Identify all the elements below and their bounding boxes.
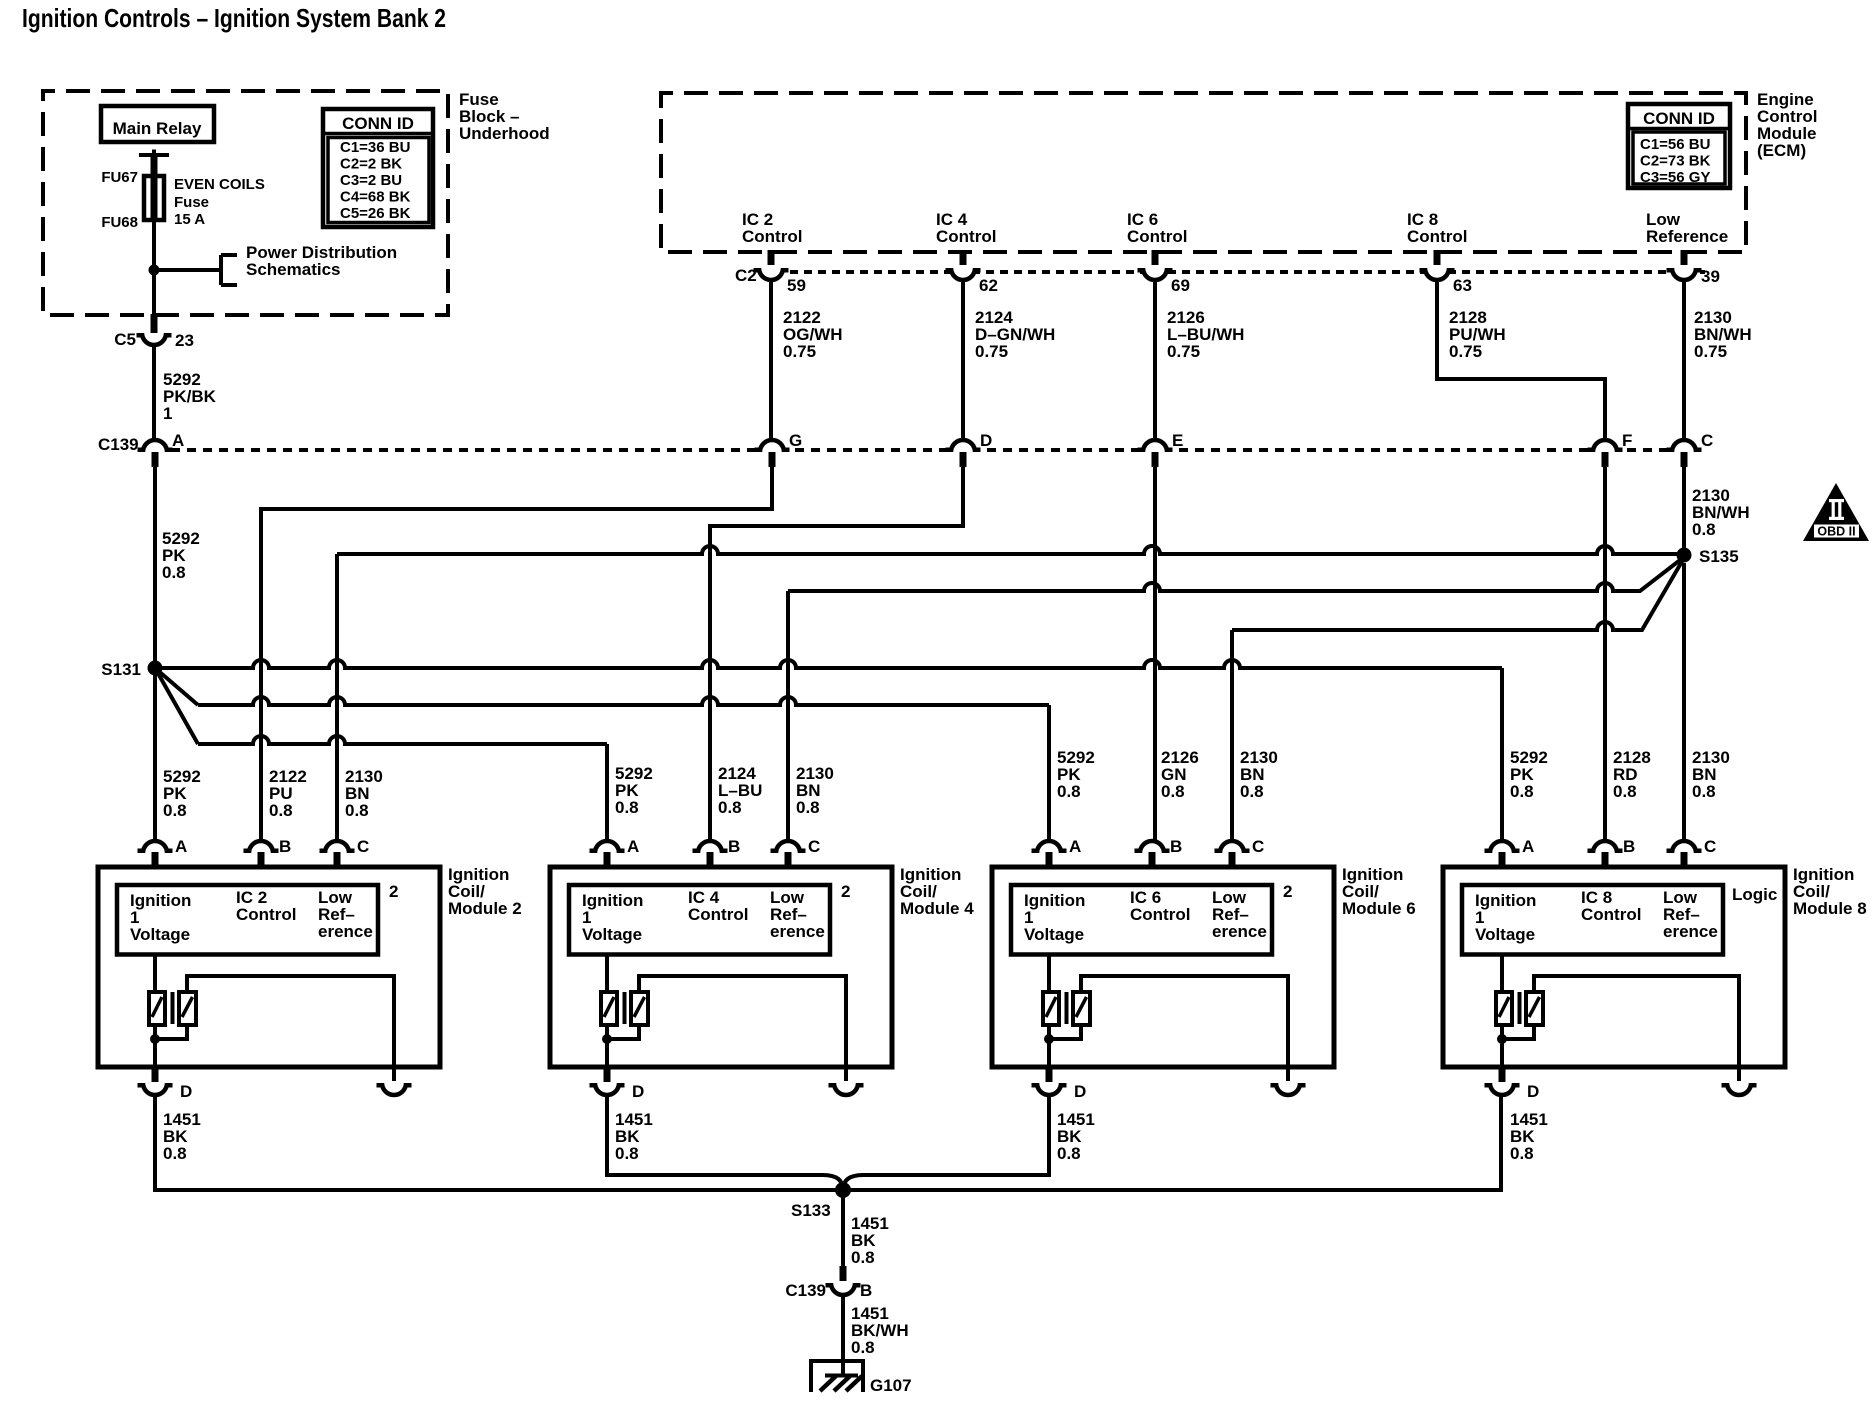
svg-text:D: D xyxy=(180,1082,192,1101)
internal wiring of module 4 xyxy=(607,976,846,1067)
svg-text:0.8: 0.8 xyxy=(1161,782,1185,801)
label: Ignition Coil/ Module 8 xyxy=(1793,865,1867,918)
svg-text:0.8: 0.8 xyxy=(269,801,293,820)
pin E xyxy=(1172,431,1183,450)
label: Engine Control Module (ECM) xyxy=(1757,90,1817,160)
pin C (Low Reference) of module 8 xyxy=(1667,841,1702,867)
svg-text:B: B xyxy=(728,837,740,856)
label: Low Ref-erence xyxy=(318,888,373,941)
wire: low reference bus S135 to module 2 pin C (2130 BN) xyxy=(337,546,1684,841)
pin letter C xyxy=(808,837,820,856)
svg-text:0.8: 0.8 xyxy=(615,798,639,817)
junction dot inside module 2 xyxy=(150,1034,160,1044)
svg-text:C139: C139 xyxy=(785,1281,826,1300)
pin 69 xyxy=(1171,276,1190,295)
wire: S135 to module 8 pin C (2130 BN) xyxy=(1682,563,1686,841)
pin letter A xyxy=(627,837,639,856)
label: Ignition 1 Voltage xyxy=(1024,891,1085,944)
connector C2 dotted harness line xyxy=(762,270,1705,274)
svg-text:Voltage: Voltage xyxy=(130,925,190,944)
ignition coil/module 8 : outer box xyxy=(1443,867,1785,1067)
label: IC 4 Control xyxy=(688,888,748,924)
svg-text:Main Relay: Main Relay xyxy=(113,119,202,138)
svg-text:C3=56 GY: C3=56 GY xyxy=(1640,169,1710,186)
label: Fuse Block - Underhood xyxy=(459,90,550,143)
pin letter C xyxy=(357,837,369,856)
internal wiring of module 6 xyxy=(1049,976,1288,1067)
unused bottom pin of module 8 xyxy=(1722,1067,1757,1095)
svg-text:Control: Control xyxy=(742,227,802,246)
wire: low reference bus S135 to module 4 pin C (2130 BN) xyxy=(788,557,1684,841)
splice S133 xyxy=(835,1182,851,1198)
svg-text:B: B xyxy=(279,837,291,856)
label: Low Ref-erence xyxy=(770,888,825,941)
pin letter A xyxy=(1069,837,1081,856)
svg-text:0.8: 0.8 xyxy=(162,563,186,582)
svg-text:B: B xyxy=(1170,837,1182,856)
svg-text:A: A xyxy=(172,431,184,450)
junction dot inside module 8 xyxy=(1497,1034,1507,1044)
svg-text:C: C xyxy=(357,837,369,856)
value label 2130 BN 0.8 (module 4 C) xyxy=(796,764,834,817)
ignition coil/module 2 : connector block inner box xyxy=(117,885,378,955)
svg-text:0.8: 0.8 xyxy=(1240,782,1264,801)
value label 2130 BN 0.8 (module 6 C) xyxy=(1240,748,1278,801)
ignition coil/module 2 : outer box xyxy=(98,867,440,1067)
junction dot inside module 6 xyxy=(1044,1034,1054,1044)
label G107 xyxy=(870,1376,912,1395)
value label 2130 BN 0.8 (module 8 C) xyxy=(1692,748,1730,801)
connector C2 pin 59 xyxy=(754,250,789,280)
wire 1451 BK 0.8 : S133 to C139-B xyxy=(841,1190,845,1267)
value label 5292 PK 0.8 (module 6 A) xyxy=(1057,748,1095,801)
label C2 xyxy=(735,266,757,285)
label: Ignition 1 Voltage xyxy=(130,891,191,944)
ECM pin label: Low Reference xyxy=(1646,210,1728,246)
pin C (Low Reference) of module 2 xyxy=(320,841,355,867)
value label 2128 PU/WH 0.75 xyxy=(1449,308,1506,361)
svg-text:Control: Control xyxy=(1581,905,1641,924)
wire 2130 BN/WH 0.75 : pin 39 to C139-C xyxy=(1682,280,1686,440)
pin F xyxy=(1622,431,1632,450)
pin A (Ignition 1 Voltage) of module 8 xyxy=(1485,841,1520,867)
pin A (Ignition 1 Voltage) of module 6 xyxy=(1032,841,1067,867)
ECM pin label: IC 2 Control xyxy=(742,210,802,246)
svg-text:0.8: 0.8 xyxy=(1057,782,1081,801)
wire 1451 BK 0.8 : module 2 D and module 8 D to S133 xyxy=(155,1095,1501,1190)
value label 5292 PK 0.8 xyxy=(162,529,200,582)
coil secondary winding (module 8) xyxy=(1526,992,1543,1025)
svg-text:Control: Control xyxy=(1130,905,1190,924)
label: 2 xyxy=(389,882,398,901)
value label 1451 BK 0.8 (module 6 D) xyxy=(1057,1110,1095,1163)
label: Ignition Coil/ Module 2 xyxy=(448,865,522,918)
label: Ignition 1 Voltage xyxy=(1475,891,1536,944)
svg-text:D: D xyxy=(1074,1082,1086,1101)
svg-text:1: 1 xyxy=(163,404,172,423)
value label 2126 L-BU/WH 0.75 xyxy=(1167,308,1244,361)
svg-text:A: A xyxy=(175,837,187,856)
label: IC 8 Control xyxy=(1581,888,1641,924)
label: Low Ref-erence xyxy=(1663,888,1718,941)
svg-text:0.8: 0.8 xyxy=(718,798,742,817)
value label 2130 BN 0.8 (module 2 C) xyxy=(345,767,383,820)
wire 2128 RD 0.8 : C139-F to module 8 pin B xyxy=(1603,467,1607,841)
svg-text:CONN ID: CONN ID xyxy=(1643,109,1715,128)
svg-text:Ignition Controls – Ignition S: Ignition Controls – Ignition System Bank… xyxy=(22,3,446,33)
svg-text:39: 39 xyxy=(1701,267,1720,286)
CONN ID table (fuse block) xyxy=(323,109,433,227)
svg-text:59: 59 xyxy=(787,276,806,295)
svg-text:D: D xyxy=(980,431,992,450)
pin letter D xyxy=(632,1082,644,1101)
label: Ignition Coil/ Module 4 xyxy=(900,865,974,918)
wire 2130 BN/WH 0.8 : C139-C to S135 xyxy=(1682,467,1686,555)
value label 5292 PK 0.8 (module 4 A) xyxy=(615,764,653,817)
label C139 xyxy=(785,1281,826,1300)
label: Power Distribution Schematics xyxy=(246,243,397,279)
ignition coil/module 4 : outer box xyxy=(550,867,892,1067)
svg-text:0.8: 0.8 xyxy=(1613,782,1637,801)
label: IC 6 Control xyxy=(1130,888,1190,924)
value label 2124 L-BU 0.8 (module 4 B) xyxy=(718,764,762,817)
label S133 xyxy=(791,1201,831,1220)
pin letter D xyxy=(1074,1082,1086,1101)
svg-text:0.8: 0.8 xyxy=(163,801,187,820)
connector C139 pin A xyxy=(138,440,173,467)
pin letter D xyxy=(1527,1082,1539,1101)
title: Ignition Controls - Ignition System Bank 2 xyxy=(22,3,446,33)
ignition coil/module 6 : outer box xyxy=(992,867,1334,1067)
value label 5292 PK 0.8 (module 8 A) xyxy=(1510,748,1548,801)
svg-text:69: 69 xyxy=(1171,276,1190,295)
svg-text:D: D xyxy=(1527,1082,1539,1101)
svg-text:Control: Control xyxy=(936,227,996,246)
svg-text:2: 2 xyxy=(1283,882,1292,901)
label: Ignition 1 Voltage xyxy=(582,891,643,944)
pin letter C xyxy=(1704,837,1716,856)
pin D of module 4 xyxy=(590,1068,625,1095)
svg-text:Voltage: Voltage xyxy=(1024,925,1084,944)
wire: S131 to module 2 pin A xyxy=(153,675,157,841)
svg-text:Module 4: Module 4 xyxy=(900,899,974,918)
pin 39 xyxy=(1701,267,1720,286)
OBD II triangle symbol xyxy=(1803,483,1869,541)
junction dot inside module 4 xyxy=(602,1034,612,1044)
value label 1451 BK 0.8 (module 2 D) xyxy=(163,1110,201,1163)
label C5 xyxy=(114,330,136,349)
pin C xyxy=(1701,431,1713,450)
svg-text:Module 6: Module 6 xyxy=(1342,899,1416,918)
ignition coil/module 8 : connector block inner box xyxy=(1462,885,1723,955)
wire 2124 D-GN/WH 0.75 : pin 62 to C139-D xyxy=(961,280,965,440)
internal wiring of module 2 xyxy=(155,976,394,1067)
svg-text:63: 63 xyxy=(1453,276,1472,295)
wire 1451 BK 0.8 : module 4 D to S133 xyxy=(607,1095,843,1190)
svg-text:C2=2 BK: C2=2 BK xyxy=(340,156,402,173)
pin G xyxy=(789,431,802,450)
svg-text:2: 2 xyxy=(389,882,398,901)
connector C2 pin 69 xyxy=(1138,250,1173,280)
value label 2122 OG/WH 0.75 xyxy=(783,308,843,361)
pin 59 xyxy=(787,276,806,295)
ignition coil/module 4 : connector block inner box xyxy=(569,885,830,955)
wire: 5292 PK bus S131 to module 8 pin A xyxy=(155,660,1502,841)
svg-text:Module 2: Module 2 xyxy=(448,899,522,918)
svg-text:erence: erence xyxy=(1212,922,1267,941)
branch wire to Power Distribution Schematics xyxy=(154,255,237,285)
svg-text:FU68: FU68 xyxy=(101,214,138,231)
label S135 xyxy=(1699,547,1739,566)
pin letter B xyxy=(1170,837,1182,856)
svg-text:0.8: 0.8 xyxy=(615,1144,639,1163)
ground G107 xyxy=(809,1359,865,1392)
value label 1451 BK 0.8 xyxy=(851,1214,889,1267)
connector C139 pin B xyxy=(826,1266,861,1295)
svg-text:S133: S133 xyxy=(791,1201,831,1220)
pin B (IC 4 Control) of module 4 xyxy=(693,841,728,867)
connector C139 pin E xyxy=(1138,440,1173,467)
wire 2122 PU 0.8 : C139-G to module 2 pin B xyxy=(261,467,772,841)
svg-text:Voltage: Voltage xyxy=(582,925,642,944)
svg-text:Underhood: Underhood xyxy=(459,124,550,143)
svg-text:erence: erence xyxy=(770,922,825,941)
pin D of module 8 xyxy=(1485,1068,1520,1095)
coil core (module 8) xyxy=(1518,992,1522,1024)
wire 5292 PK/BK 1 : C5 to C139-A xyxy=(152,345,156,440)
fuse FU67/FU68 EVEN COILS 15A xyxy=(144,176,164,220)
label: 2 xyxy=(841,882,850,901)
fuse block - underhood dashed enclosure xyxy=(43,91,448,315)
value label 2124 D-GN/WH 0.75 xyxy=(975,308,1055,361)
pin A (Ignition 1 Voltage) of module 2 xyxy=(138,841,173,867)
unused bottom pin of module 4 xyxy=(829,1067,864,1095)
svg-text:C1=56 BU: C1=56 BU xyxy=(1640,136,1710,153)
pin B (IC 8 Control) of module 8 xyxy=(1588,841,1623,867)
pin letter B xyxy=(1623,837,1635,856)
value label 1451 BK 0.8 (module 8 D) xyxy=(1510,1110,1548,1163)
connector C5 pin 23 xyxy=(137,314,172,345)
svg-text:0.8: 0.8 xyxy=(163,1144,187,1163)
svg-text:Logic: Logic xyxy=(1732,885,1777,904)
svg-text:A: A xyxy=(1069,837,1081,856)
svg-text:S131: S131 xyxy=(101,660,141,679)
wire: low reference bus S135 to module 6 pin C (2130 BN) xyxy=(1232,558,1684,841)
svg-text:erence: erence xyxy=(318,922,373,941)
pin 62 xyxy=(979,276,998,295)
wire 2126 GN 0.8 : C139-E to module 6 pin B xyxy=(1153,467,1157,841)
pin B (IC 6 Control) of module 6 xyxy=(1135,841,1170,867)
svg-text:C: C xyxy=(1704,837,1716,856)
connector C2 pin 62 xyxy=(946,250,981,280)
svg-text:0.75: 0.75 xyxy=(1694,342,1727,361)
svg-text:Fuse: Fuse xyxy=(174,194,209,211)
label FU68 xyxy=(101,214,138,231)
svg-text:A: A xyxy=(1522,837,1534,856)
value label 5292 PK/BK 1 xyxy=(163,370,217,423)
svg-text:B: B xyxy=(1623,837,1635,856)
svg-text:Control: Control xyxy=(236,905,296,924)
wire: fuse to C5 xyxy=(152,220,156,322)
svg-text:S135: S135 xyxy=(1699,547,1739,566)
value label 1451 BK 0.8 (module 4 D) xyxy=(615,1110,653,1163)
svg-text:D: D xyxy=(632,1082,644,1101)
wire 1451 BK 0.8 : module 6 D to S133 xyxy=(843,1095,1049,1190)
svg-text:FU67: FU67 xyxy=(101,169,138,186)
splice S131 xyxy=(148,661,163,676)
svg-text:C1=36 BU: C1=36 BU xyxy=(340,139,410,156)
engine control module (ECM) dashed enclosure xyxy=(661,93,1746,252)
value label 2126 GN 0.8 (module 6 B) xyxy=(1161,748,1199,801)
coil core (module 6) xyxy=(1065,992,1069,1024)
svg-text:G107: G107 xyxy=(870,1376,912,1395)
coil primary winding (module 8) xyxy=(1496,955,1512,1026)
svg-text:F: F xyxy=(1622,431,1632,450)
label: Ignition Coil/ Module 6 xyxy=(1342,865,1416,918)
label: EVEN COILS Fuse 15 A xyxy=(174,176,265,228)
svg-text:C5: C5 xyxy=(114,330,136,349)
svg-text:0.8: 0.8 xyxy=(1510,782,1534,801)
svg-text:CONN ID: CONN ID xyxy=(342,114,414,133)
ECM pin label: IC 4 Control xyxy=(936,210,996,246)
svg-text:C139: C139 xyxy=(98,435,139,454)
connector C139 pin C xyxy=(1667,440,1702,467)
pin C (Low Reference) of module 4 xyxy=(771,841,806,867)
svg-text:Reference: Reference xyxy=(1646,227,1728,246)
wire 1451 BK/WH 0.8 : C139-B to G107 xyxy=(841,1295,845,1374)
relay contact bar xyxy=(139,150,169,156)
svg-text:0.8: 0.8 xyxy=(851,1248,875,1267)
svg-text:EVEN COILS: EVEN COILS xyxy=(174,176,265,193)
ECM pin label: IC 6 Control xyxy=(1127,210,1187,246)
svg-text:0.8: 0.8 xyxy=(796,798,820,817)
value label 2128 RD 0.8 (module 8 B) xyxy=(1613,748,1651,801)
svg-text:C2=73 BK: C2=73 BK xyxy=(1640,153,1711,170)
splice S135 xyxy=(1677,548,1692,563)
pin letter A xyxy=(1522,837,1534,856)
coil core (module 2) xyxy=(171,992,175,1024)
coil secondary winding (module 6) xyxy=(1073,992,1090,1025)
svg-text:0.75: 0.75 xyxy=(783,342,816,361)
svg-text:Control: Control xyxy=(1407,227,1467,246)
internal wiring of module 8 xyxy=(1502,976,1739,1067)
pin B xyxy=(860,1281,872,1300)
wire 2122 OG/WH 0.75 : pin 59 to C139-G xyxy=(769,280,773,440)
svg-text:62: 62 xyxy=(979,276,998,295)
wire: 5292 PK bus S131 to module 6 pin A xyxy=(155,668,1049,841)
svg-text:Control: Control xyxy=(688,905,748,924)
label C139 xyxy=(98,435,139,454)
unused bottom pin of module 2 xyxy=(377,1067,412,1095)
value label 2122 PU 0.8 (module 2 B) xyxy=(269,767,307,820)
value label 2130 BN/WH 0.75 xyxy=(1694,308,1752,361)
coil secondary winding (module 2) xyxy=(179,992,196,1025)
svg-text:0.8: 0.8 xyxy=(1510,1144,1534,1163)
svg-text:C4=68 BK: C4=68 BK xyxy=(340,189,411,206)
coil secondary winding (module 4) xyxy=(631,992,648,1025)
svg-text:C: C xyxy=(1252,837,1264,856)
svg-text:0.8: 0.8 xyxy=(345,801,369,820)
svg-text:2: 2 xyxy=(841,882,850,901)
wire: 5292 PK bus S131 to module 4 pin A xyxy=(155,668,607,841)
svg-text:C: C xyxy=(1701,431,1713,450)
label: Low Ref-erence xyxy=(1212,888,1267,941)
CONN ID table (ECM) xyxy=(1628,104,1730,188)
label: IC 2 Control xyxy=(236,888,296,924)
svg-text:G: G xyxy=(789,431,802,450)
pin A xyxy=(172,431,184,450)
junction dot on feed wire xyxy=(149,265,160,276)
svg-text:C: C xyxy=(808,837,820,856)
pin 23 xyxy=(175,331,194,350)
coil primary winding (module 2) xyxy=(149,955,165,1026)
pin B (IC 2 Control) of module 2 xyxy=(244,841,279,867)
connector C139 dashed harness line xyxy=(155,448,1684,452)
label FU67 xyxy=(101,169,138,186)
pin D xyxy=(980,431,992,450)
wire 2128 PU/WH 0.75 : pin 63 to C139-F xyxy=(1437,280,1605,440)
svg-text:23: 23 xyxy=(175,331,194,350)
coil primary winding (module 4) xyxy=(601,955,617,1026)
pin C (Low Reference) of module 6 xyxy=(1215,841,1250,867)
unused bottom pin of module 6 xyxy=(1271,1067,1306,1095)
svg-text:(ECM): (ECM) xyxy=(1757,141,1806,160)
svg-text:Voltage: Voltage xyxy=(1475,925,1535,944)
coil primary winding (module 6) xyxy=(1043,955,1059,1026)
connector C139 pin G xyxy=(755,440,790,467)
svg-text:C5=26 BK: C5=26 BK xyxy=(340,205,411,222)
relay K: Main Relay box xyxy=(101,106,214,142)
pin letter B xyxy=(728,837,740,856)
svg-text:15 A: 15 A xyxy=(174,211,205,228)
label: 2 xyxy=(1283,882,1292,901)
pin D of module 6 xyxy=(1032,1068,1067,1095)
pin D of module 2 xyxy=(138,1068,173,1095)
connector C139 pin D xyxy=(946,440,981,467)
connector C2 pin 39 xyxy=(1667,250,1702,280)
svg-text:B: B xyxy=(860,1281,872,1300)
svg-text:0.75: 0.75 xyxy=(1167,342,1200,361)
svg-text:OBD II: OBD II xyxy=(1817,525,1855,539)
connector C2 pin 63 xyxy=(1420,250,1455,280)
svg-text:0.8: 0.8 xyxy=(1057,1144,1081,1163)
label S131 xyxy=(101,660,141,679)
wire 2126 L-BU/WH 0.75 : pin 69 to C139-E xyxy=(1153,280,1157,440)
pin A (Ignition 1 Voltage) of module 4 xyxy=(590,841,625,867)
value label 2130 BN/WH 0.8 xyxy=(1692,486,1750,539)
pin letter D xyxy=(180,1082,192,1101)
svg-text:0.8: 0.8 xyxy=(1692,782,1716,801)
svg-text:E: E xyxy=(1172,431,1183,450)
svg-text:Schematics: Schematics xyxy=(246,260,341,279)
svg-text:C3=2 BU: C3=2 BU xyxy=(340,172,402,189)
svg-text:Module 8: Module 8 xyxy=(1793,899,1867,918)
pin 63 xyxy=(1453,276,1472,295)
value label 1451 BK/WH 0.8 xyxy=(851,1304,909,1357)
svg-text:Control: Control xyxy=(1127,227,1187,246)
label: Logic xyxy=(1732,885,1777,904)
pin letter B xyxy=(279,837,291,856)
svg-text:A: A xyxy=(627,837,639,856)
wire 5292 PK 0.8 : C139-A to S131 xyxy=(153,467,157,668)
ignition coil/module 6 : connector block inner box xyxy=(1011,885,1272,955)
ECM pin label: IC 8 Control xyxy=(1407,210,1467,246)
svg-text:0.8: 0.8 xyxy=(851,1338,875,1357)
wire: relay to fuse FU67 xyxy=(151,155,158,221)
svg-text:0.75: 0.75 xyxy=(1449,342,1482,361)
connector C139 pin F xyxy=(1588,440,1623,467)
svg-text:erence: erence xyxy=(1663,922,1718,941)
